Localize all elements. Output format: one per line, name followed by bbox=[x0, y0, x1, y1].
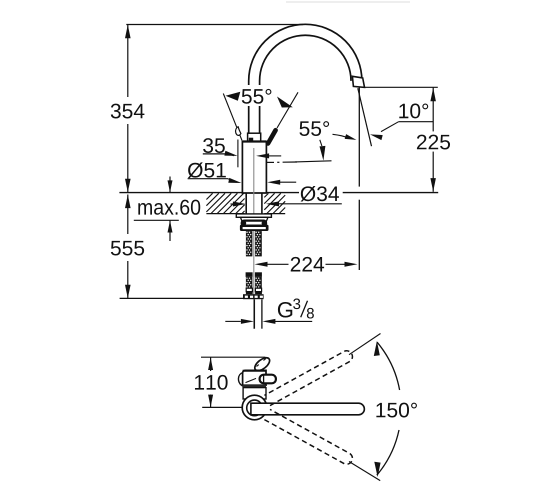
swing boundary lines bbox=[349, 334, 381, 355]
flexible hoses lower section with ferrules bbox=[246, 272, 253, 277]
G3/8 connector pipe bbox=[253, 299, 255, 328]
washer, clamp and mounting nut bbox=[236, 214, 271, 217]
top view spout bbox=[251, 403, 364, 415]
label G 3/8 thread bbox=[225, 320, 241, 322]
aerator spout tip bbox=[352, 76, 364, 87]
faucet body with collar bbox=[242, 142, 266, 194]
flexible hoses upper section bbox=[246, 231, 253, 256]
hose end nuts bbox=[243, 294, 264, 299]
handle lever bbox=[268, 130, 276, 143]
countertop with hatch bbox=[119, 192, 299, 194]
dimension 555 (hose length below deck) bbox=[127, 195, 129, 235]
dimension 10 deg stream angle bbox=[399, 104, 428, 119]
dimension 110 (top view) bbox=[201, 356, 266, 358]
dimension 225 (spout height) bbox=[365, 86, 438, 88]
dashed spout rotated down bbox=[264, 409, 352, 464]
lever axis line bbox=[267, 161, 274, 163]
dimension diameter 34 (shank) bbox=[230, 203, 233, 205]
centerline bbox=[253, 148, 255, 329]
top view swivel base circles bbox=[242, 395, 267, 420]
dimension 354 (height to spout top) bbox=[126, 24, 303, 26]
spout arc and riser pipe bbox=[249, 24, 362, 133]
water stream lines bbox=[358, 88, 360, 187]
dimension 150 deg swivel arc bbox=[377, 342, 400, 390]
mounting shank bbox=[245, 193, 247, 214]
dimension 55 deg handle angle (right) bbox=[299, 121, 329, 136]
dimension max.60 (deck thickness) bbox=[169, 177, 171, 193]
dimension 35 bbox=[203, 138, 225, 153]
dimension 55 deg handle swing (left) bbox=[223, 94, 242, 141]
top view handle assembly bbox=[253, 355, 272, 373]
dashed spout rotated up bbox=[264, 351, 352, 406]
dimension diameter 51 (body) bbox=[188, 162, 226, 178]
faint remnant line top bbox=[286, 1, 410, 3]
dimension 224 (projection) bbox=[255, 262, 268, 267]
